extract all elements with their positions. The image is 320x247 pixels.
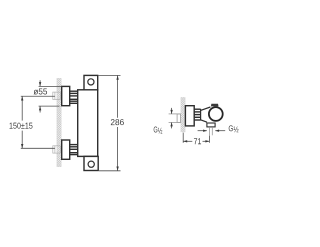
bottom mounting tab [84, 156, 98, 170]
dimension 286: extension lines [99, 75, 121, 170]
outlet diameter arrows [198, 130, 226, 132]
label 71 [194, 138, 201, 144]
knob cap [211, 104, 219, 107]
top mounting tab [84, 75, 98, 89]
dimension 71: extension lines [183, 133, 209, 143]
o55 arrowheads [39, 82, 41, 86]
286 arrowheads [116, 75, 118, 79]
escutcheon flange top (left view) [62, 86, 70, 105]
escutcheon flange bottom (left view) [62, 140, 70, 159]
threaded union bottom (left view) [70, 145, 78, 155]
dimension 150+-15: extension lines [21, 96, 55, 148]
label 286 [111, 119, 124, 125]
label G1/2 right [229, 125, 239, 132]
dimension o55: extension lines [39, 80, 62, 112]
label o55 [34, 88, 47, 94]
bottom tab hole [88, 161, 94, 167]
150+-15 arrowheads [21, 96, 23, 100]
label 150+-15 [10, 123, 33, 129]
knob circle [209, 107, 223, 121]
label G1/2 left [154, 127, 163, 134]
wall (hatched) [57, 78, 62, 167]
threaded union top (left view) [70, 91, 78, 103]
concealed elbow bottom (behind wall) [53, 146, 61, 153]
mixer body (left view) [78, 90, 98, 157]
outlet elbow (right view) [207, 123, 215, 127]
supply stub extension lines (behind wall) [169, 114, 181, 123]
threaded section (right view) [194, 109, 200, 120]
top tab hole [88, 79, 94, 85]
71 arrowheads [183, 140, 187, 142]
wall (hatched) [181, 97, 186, 132]
stub diameter arrows [171, 108, 173, 128]
escutcheon flange (right view) [185, 106, 194, 126]
outlet pipe (right view) [209, 127, 212, 135]
valve body taper (right view) [201, 107, 211, 122]
concealed elbow top (behind wall) [53, 92, 61, 99]
